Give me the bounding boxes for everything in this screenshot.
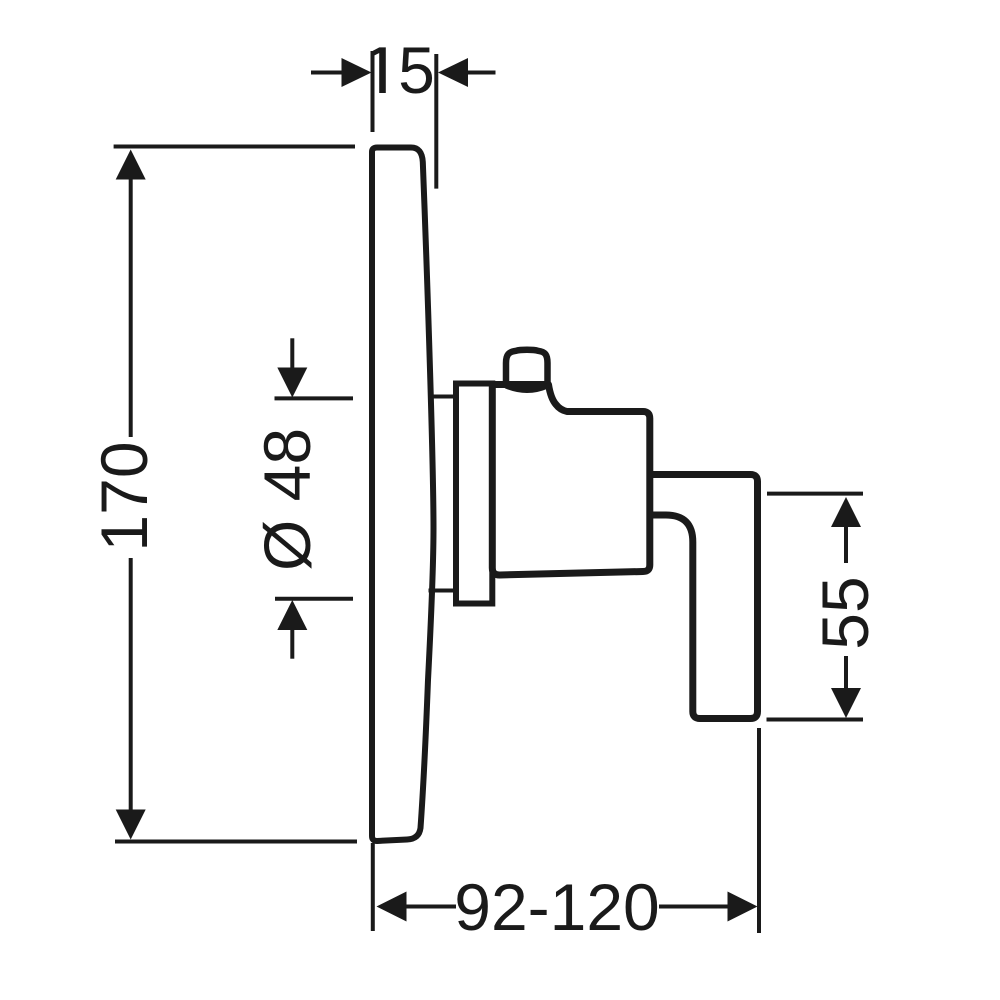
dim 92-120: left extension line <box>371 843 375 931</box>
dim 55: top arrow (points up) <box>831 497 861 527</box>
dim 92-120: right extension line <box>757 728 761 933</box>
svg-text:92-120: 92-120 <box>454 870 660 944</box>
knob base arc <box>506 386 548 391</box>
dimension graphics <box>114 51 863 933</box>
dim 170: bottom extension line <box>115 840 357 844</box>
svg-text:55: 55 <box>808 576 882 649</box>
knob on top of body <box>506 350 548 386</box>
label 15 <box>373 33 435 107</box>
svg-text:5: 5 <box>398 33 435 107</box>
dim 92-120: left arrow <box>377 892 407 922</box>
dim 15: left arrow <box>311 71 344 75</box>
dim 15: right extension line <box>434 54 438 189</box>
dim 170: bottom arrow <box>129 558 133 812</box>
svg-text:Ø 48: Ø 48 <box>250 428 324 571</box>
dim D48: top arrow (points down) <box>290 338 294 368</box>
dim D48: bottom arrow (points up) <box>277 600 307 630</box>
dim 170: top arrow <box>116 150 146 180</box>
dim 55: bottom extension line <box>767 718 864 722</box>
lever handle <box>650 475 758 719</box>
dim D48: top extension lines <box>275 396 354 400</box>
dim 15: right arrow <box>465 71 496 75</box>
escutcheon plate (side profile) <box>372 148 434 842</box>
dim 170: top extension line <box>114 145 355 149</box>
valve body with stepped top <box>492 385 650 576</box>
dim 55: top extension line <box>767 492 863 496</box>
dim D48: bottom extension lines <box>275 597 353 601</box>
svg-text:170: 170 <box>87 441 161 551</box>
dim 55: bottom arrow (points down) <box>844 656 848 691</box>
dim 15: left extension line <box>371 51 375 132</box>
dim 92-120: right arrow <box>659 905 731 909</box>
wall flange sleeve <box>456 384 492 604</box>
